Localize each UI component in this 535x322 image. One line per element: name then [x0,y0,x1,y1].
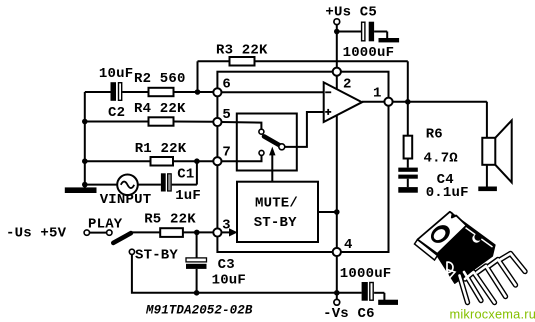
svg-text:10uF: 10uF [212,273,246,289]
svg-text:R2 560: R2 560 [134,71,186,87]
svg-text:1000uF: 1000uF [340,266,392,282]
svg-text:PLAY: PLAY [88,217,123,233]
svg-text:R5 22K: R5 22K [144,212,196,228]
svg-text:3: 3 [222,218,231,234]
svg-text:C1: C1 [177,167,194,183]
svg-text:+Us C5: +Us C5 [325,4,377,20]
svg-text:MUTE/: MUTE/ [255,195,298,211]
svg-text:4.7Ω: 4.7Ω [424,150,459,166]
svg-text:M91TDA2052-02B: M91TDA2052-02B [145,304,253,318]
svg-text:6: 6 [222,77,231,93]
svg-text:10uF: 10uF [99,66,133,82]
svg-text:1000uF: 1000uF [343,45,395,61]
svg-text:1uF: 1uF [175,188,201,204]
svg-text:mikrocxema.ru: mikrocxema.ru [450,307,535,322]
svg-text:C3: C3 [218,257,235,273]
svg-text:-Vs C6: -Vs C6 [323,306,375,322]
svg-text:-Us +5V: -Us +5V [6,225,67,241]
svg-text:4: 4 [344,237,353,253]
svg-text:1: 1 [373,86,382,102]
svg-text:ST-BY: ST-BY [254,215,297,231]
svg-text:7: 7 [222,145,231,161]
svg-text:R4 22K: R4 22K [134,101,186,117]
svg-text:2: 2 [343,77,352,93]
svg-text:R6: R6 [426,126,443,142]
svg-text:C2: C2 [108,105,125,121]
svg-text:R3 22K: R3 22K [216,43,268,59]
svg-text:VINPUT: VINPUT [100,192,152,208]
svg-text:5: 5 [222,107,231,123]
svg-text:ST-BY: ST-BY [135,247,178,263]
svg-text:R1 22K: R1 22K [135,141,187,157]
svg-text:0.1uF: 0.1uF [426,185,469,201]
